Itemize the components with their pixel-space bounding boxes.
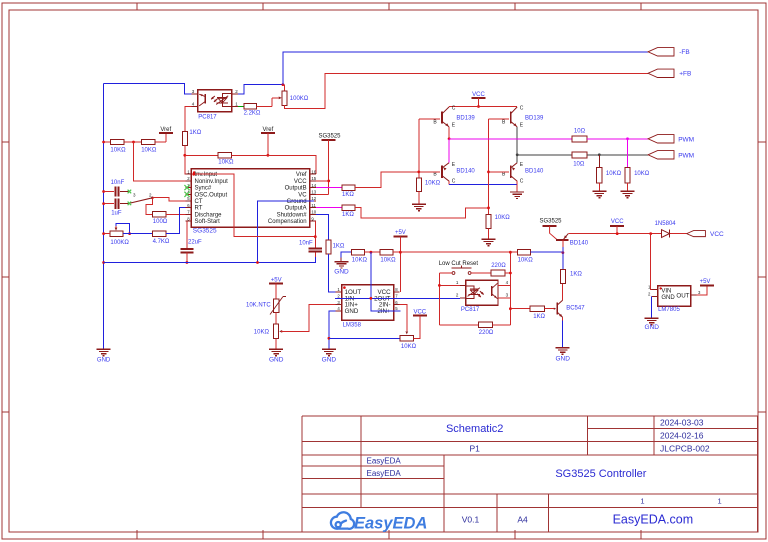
wire Soft-Start pin8 to 22uF — [185, 221, 187, 249]
logo EasyEDA — [331, 512, 354, 529]
svg-text:3: 3 — [133, 192, 136, 197]
svg-text:10KΩ: 10KΩ — [634, 171, 650, 177]
svg-text:Soft-Start: Soft-Start — [195, 219, 221, 225]
svg-text:1KΩ: 1KΩ — [533, 314, 545, 320]
svg-text:E: E — [452, 123, 456, 129]
wire bottom blue to 10K pot — [329, 337, 400, 339]
wire 22uF to ground bus — [186, 252, 188, 262]
ground LM358 — [322, 348, 336, 350]
svg-text:10Ω: 10Ω — [574, 128, 586, 134]
wire OutputA to right driver bases — [355, 208, 489, 218]
svg-text:C: C — [452, 105, 456, 111]
resistor 220R (upper) — [491, 270, 505, 276]
potentiometer 100K (feedback) — [282, 91, 287, 106]
svg-text:Vref: Vref — [160, 127, 171, 133]
wire PC817#2 right pins to bus — [498, 284, 510, 286]
svg-text:10KΩ: 10KΩ — [218, 160, 234, 166]
svg-text:C: C — [520, 105, 524, 111]
wire BC547 emitter to ground — [562, 317, 564, 320]
svg-text:PC817: PC817 — [461, 307, 480, 313]
svg-text:Ground: Ground — [287, 199, 307, 205]
svg-text:10: 10 — [311, 210, 316, 215]
svg-text:2024-03-03: 2024-03-03 — [660, 418, 704, 428]
potentiometer 100K (RT) — [110, 231, 123, 236]
resistor 10R (lower) — [572, 152, 587, 158]
resistor 10R (upper) — [572, 136, 587, 142]
svg-text:E: E — [520, 123, 524, 129]
ground left rail — [103, 348, 105, 350]
svg-text:2024-02-16: 2024-02-16 — [660, 431, 704, 441]
transistor Q BD139 (left) — [441, 112, 443, 124]
capacitor 10nF (compensation) — [314, 237, 316, 249]
IC U3 LM7805 — [658, 286, 691, 307]
svg-text:OutputA: OutputA — [285, 206, 307, 212]
wire collectors blue link — [448, 181, 450, 184]
svg-text:2.2KΩ: 2.2KΩ — [244, 111, 261, 117]
svg-text:GND: GND — [555, 356, 570, 363]
svg-text:B: B — [502, 172, 506, 178]
svg-text:PC817: PC817 — [198, 114, 217, 120]
svg-text:EasyEDA: EasyEDA — [367, 457, 402, 466]
resistor 220R (lower) — [439, 324, 478, 326]
svg-text:13: 13 — [311, 190, 316, 195]
svg-text:GND: GND — [345, 308, 359, 315]
resistor 1K (OutputB) — [342, 185, 355, 190]
svg-text:P1: P1 — [469, 444, 480, 454]
ground LM7805 — [645, 317, 659, 319]
wire SG3525 flag to VCC pin15 and VC pin13 — [328, 140, 330, 194]
svg-text:JLCPCB-002: JLCPCB-002 — [660, 444, 710, 454]
svg-text:10KΩ: 10KΩ — [401, 344, 417, 350]
resistor 4.7K (RT) — [152, 231, 166, 236]
svg-text:1KΩ: 1KΩ — [342, 192, 354, 198]
svg-text:1uF: 1uF — [111, 211, 122, 217]
svg-text:3: 3 — [506, 293, 509, 298]
svg-text:1KΩ: 1KΩ — [189, 130, 201, 136]
wire switch left to vertical — [439, 272, 452, 274]
svg-text:PWM: PWM — [678, 136, 694, 143]
flag VCC output — [687, 231, 706, 237]
wire switch right to 220R — [471, 272, 491, 274]
wire 2.2K to pot wiper — [257, 105, 273, 107]
thermistor 10K NTC — [274, 299, 279, 313]
wire left emitters — [448, 127, 450, 139]
wire 1K down to LM358 1OUT — [328, 254, 335, 292]
svg-text:3: 3 — [192, 89, 195, 94]
svg-text:3: 3 — [698, 290, 701, 295]
wire pot right to 4.7K — [123, 233, 152, 235]
node divider junction — [132, 141, 135, 144]
wire Compensation pin9 drop — [314, 221, 316, 237]
svg-text:4.7KΩ: 4.7KΩ — [153, 239, 170, 245]
svg-text:OutputB: OutputB — [285, 186, 307, 192]
svg-text:BD139: BD139 — [525, 116, 544, 122]
power flag +5V (divider) — [393, 251, 400, 253]
wire LM7805 GND to ground — [651, 297, 653, 319]
resistor 2.2K — [244, 104, 257, 109]
resistor 10K (pulldown right) — [627, 139, 629, 168]
wire pot bottom to +FB — [284, 73, 648, 108]
wire divider to Noninv.Input pin2 — [134, 142, 186, 181]
svg-text:100KΩ: 100KΩ — [110, 240, 129, 246]
svg-text:Compensation: Compensation — [268, 219, 307, 225]
wire switch to CT pin5 — [152, 197, 185, 201]
svg-text:15: 15 — [311, 176, 316, 181]
optocoupler PC817 #1 — [198, 90, 232, 112]
wire 220R to right bus — [505, 272, 510, 274]
wire 1K to Inv.Input pin1 — [185, 145, 192, 174]
wire PWM lower dark — [517, 154, 572, 156]
ground right base 10K — [488, 229, 490, 240]
svg-text:C: C — [452, 179, 456, 185]
svg-text:SG3525 Controller: SG3525 Controller — [555, 468, 646, 480]
power flag +5V (LM7805) — [700, 285, 714, 287]
resistor 100R — [152, 212, 166, 217]
svg-text:10KΩ: 10KΩ — [518, 257, 534, 263]
resistor 10K (divider left) — [111, 139, 125, 144]
wire pot top to blue node — [283, 85, 285, 91]
svg-text:2: 2 — [456, 293, 459, 298]
wire 10K to BD140 collector node — [530, 251, 563, 253]
wire VCC rail to diode — [568, 233, 686, 235]
wire OutputB magenta — [316, 187, 342, 189]
resistor 1K (collector load) — [560, 269, 565, 283]
svg-text:Noninv.Input: Noninv.Input — [195, 179, 229, 185]
svg-text:PWM: PWM — [678, 152, 694, 159]
svg-text:E: E — [452, 162, 456, 168]
svg-text:9: 9 — [311, 216, 314, 221]
IC U1 SG3525 — [191, 169, 309, 227]
svg-text:+FB: +FB — [679, 71, 691, 78]
wire right base vertical — [488, 119, 490, 215]
svg-text:GND: GND — [644, 324, 659, 331]
transistor Q BD140 (right) — [510, 166, 512, 178]
wire blue top-left to PC817 pin3 — [104, 84, 192, 95]
svg-text:B: B — [502, 120, 506, 126]
svg-text:V0.1: V0.1 — [462, 514, 480, 524]
wire PWM upper magenta — [449, 138, 572, 140]
wire divider mid to 2IN+ — [371, 252, 400, 311]
svg-text:1KΩ: 1KΩ — [570, 271, 582, 277]
wire 4.7K to RT pin6 — [166, 208, 185, 234]
wire ground bus — [104, 257, 316, 263]
svg-text:10KΩ: 10KΩ — [425, 180, 441, 186]
resistor 10K (pulldown left) — [598, 155, 600, 168]
wire left vertical of PC817#2 — [438, 273, 440, 325]
svg-text:VCC: VCC — [294, 179, 307, 185]
svg-text:4: 4 — [506, 280, 509, 285]
transistor Q BC547 — [544, 308, 554, 310]
svg-text:C: C — [520, 179, 524, 185]
resistor 10K (right base) — [486, 215, 491, 229]
switch Low Cut Reset — [452, 272, 455, 275]
wire pot bottom to ground — [275, 339, 277, 350]
svg-text:B: B — [433, 120, 437, 126]
wire pot right to VCC — [414, 315, 420, 338]
capacitor 10nF (CT) — [104, 191, 114, 193]
ground pulldown left — [598, 183, 600, 191]
flag -FB — [648, 48, 674, 56]
power flag Vref (right) — [261, 132, 275, 134]
wire OutputB to driver bases — [355, 172, 419, 188]
svg-text:10KΩ: 10KΩ — [254, 329, 270, 335]
wire Inv.Input feedback crossover — [194, 174, 316, 237]
node Vref line junction — [183, 154, 186, 157]
svg-text:BD140: BD140 — [456, 169, 475, 175]
svg-text:CT: CT — [195, 199, 203, 205]
svg-text:Vref: Vref — [263, 127, 274, 133]
svg-text:LM358: LM358 — [343, 323, 362, 329]
wire 10K left stub to ground — [341, 252, 352, 257]
svg-text:Sync#: Sync# — [195, 186, 212, 192]
wire NTC to pot — [275, 313, 277, 325]
svg-text:VC: VC — [298, 192, 307, 198]
svg-text:3: 3 — [337, 300, 340, 305]
svg-text:7: 7 — [395, 294, 398, 299]
potentiometer 10K (NTC) — [274, 324, 279, 339]
svg-text:1: 1 — [187, 169, 190, 174]
ground pulldown right — [627, 183, 629, 191]
svg-text:Discharge: Discharge — [195, 212, 223, 218]
transistor Q BD139 (right) — [510, 112, 512, 124]
svg-text:1N5804: 1N5804 — [655, 221, 677, 227]
svg-text:B: B — [433, 172, 437, 178]
wire OutputA magenta — [316, 207, 342, 209]
svg-text:7: 7 — [187, 210, 190, 215]
svg-text:10KΩ: 10KΩ — [606, 171, 622, 177]
svg-text:BC547: BC547 — [566, 306, 585, 312]
transistor Q BD140 (left) — [441, 166, 443, 178]
svg-text:GND: GND — [661, 295, 675, 301]
wire bus to 1K base resistor — [510, 308, 530, 310]
svg-text:Low Cut Reset: Low Cut Reset — [439, 261, 479, 267]
wire PC817 pin4 down to 1K — [185, 106, 192, 131]
svg-text:OSC.Output: OSC.Output — [195, 192, 228, 198]
svg-text:EasyEDA: EasyEDA — [354, 514, 427, 532]
svg-text:10K.NTC: 10K.NTC — [246, 303, 271, 309]
svg-text:2: 2 — [187, 176, 190, 181]
svg-text:4: 4 — [192, 101, 195, 106]
svg-text:14: 14 — [311, 183, 316, 188]
ground right BD140 collector — [516, 185, 518, 192]
resistor 10K (divider a) — [352, 250, 365, 255]
resistor 10K (divider b) — [380, 250, 393, 255]
svg-text:1: 1 — [718, 496, 722, 505]
svg-text:Inv.Input: Inv.Input — [195, 172, 218, 178]
wire -FB riser — [283, 52, 648, 85]
resistor 1K (OutputA) — [342, 205, 355, 210]
wire BC547 collector — [562, 283, 564, 300]
wire rail to pot left — [104, 233, 110, 235]
resistor 10K (left base) — [416, 178, 421, 192]
wire pot wiper loop — [116, 223, 130, 233]
wire OUT to +5V — [697, 286, 707, 296]
svg-text:8: 8 — [395, 287, 398, 292]
svg-text:VCC: VCC — [611, 219, 624, 225]
svg-text:5: 5 — [395, 306, 398, 311]
svg-text:EasyEDA: EasyEDA — [367, 469, 402, 478]
optocoupler PC817 #2 — [466, 280, 498, 305]
ground BC547 — [556, 347, 570, 349]
wire PC817 pin2 to -FB net — [238, 85, 283, 95]
svg-text:16: 16 — [311, 169, 316, 174]
power flag Vref (left) — [155, 141, 165, 143]
svg-text:1: 1 — [640, 496, 644, 505]
no-connect OSC.Output pin4 — [184, 192, 189, 197]
svg-text:1KΩ: 1KΩ — [333, 244, 345, 250]
svg-text:10KΩ: 10KΩ — [352, 258, 368, 264]
svg-text:6: 6 — [395, 300, 398, 305]
svg-text:8: 8 — [187, 216, 190, 221]
potentiometer 10K (offset) — [400, 336, 414, 342]
node pot top junction — [282, 83, 285, 86]
svg-text:Vref: Vref — [296, 172, 307, 178]
wire 1IN- 2OUT blue line — [335, 297, 460, 299]
svg-text:22uF: 22uF — [188, 240, 202, 246]
resistor 1K (shutdown) — [326, 240, 331, 254]
svg-text:LM7805: LM7805 — [658, 307, 680, 313]
svg-text:OUT: OUT — [676, 293, 689, 300]
node bottom blue junction — [328, 337, 331, 340]
resistor 10K (divider right) — [142, 139, 156, 144]
svg-text:-FB: -FB — [679, 49, 689, 56]
svg-text:GND: GND — [322, 357, 337, 364]
svg-text:100Ω: 100Ω — [153, 219, 168, 225]
IC U2 LM358 — [342, 285, 394, 321]
svg-text:+5V: +5V — [700, 279, 711, 285]
node divider tap dots on rail — [102, 141, 105, 144]
flag PWM lower — [648, 151, 674, 159]
wire to PC817#2 pin1 — [439, 284, 460, 286]
wire Ground pin12 drop — [258, 201, 315, 263]
ground divider — [335, 261, 349, 263]
node diode junction — [649, 232, 652, 235]
wire bridge top rail — [449, 106, 517, 108]
svg-text:10KΩ: 10KΩ — [110, 148, 126, 154]
svg-text:10KΩ: 10KΩ — [141, 148, 157, 154]
svg-text:SG3525: SG3525 — [540, 218, 563, 224]
svg-text:100KΩ: 100KΩ — [290, 96, 309, 102]
svg-text:10nF: 10nF — [111, 180, 125, 186]
wire divider row to PC817#2 bus — [400, 251, 510, 253]
svg-text:5: 5 — [187, 196, 190, 201]
node divider mid — [365, 251, 381, 253]
svg-text:1KΩ: 1KΩ — [342, 212, 354, 218]
svg-text:12: 12 — [311, 196, 316, 201]
wire right emitters (dark) — [516, 127, 518, 155]
wire node to 1K — [562, 253, 564, 270]
svg-text:1: 1 — [235, 101, 238, 106]
transistor Q BD140 (driver) — [550, 226, 557, 240]
wire left blue rail — [103, 84, 105, 350]
diode 1N5804 — [662, 230, 670, 238]
svg-text:220Ω: 220Ω — [479, 330, 494, 336]
svg-text:VIN: VIN — [661, 288, 671, 294]
svg-text:11: 11 — [311, 203, 316, 208]
wire diode node to LM7805 VIN — [651, 234, 652, 290]
wire pot wiper to LM358 1IN+ — [284, 305, 336, 332]
svg-text:10KΩ: 10KΩ — [495, 215, 511, 221]
wire 10K to Vref pin16 — [232, 155, 316, 174]
svg-text:10KΩ: 10KΩ — [380, 258, 396, 264]
svg-text:GND: GND — [97, 358, 111, 364]
svg-text:1: 1 — [337, 287, 340, 292]
svg-text:Schematic2: Schematic2 — [446, 423, 503, 435]
svg-text:GND: GND — [334, 268, 349, 275]
svg-text:SG3525: SG3525 — [193, 227, 217, 234]
svg-text:2: 2 — [648, 291, 651, 296]
svg-text:10nF: 10nF — [299, 241, 313, 247]
svg-text:A4: A4 — [517, 514, 528, 524]
title block grid — [302, 415, 758, 417]
wire 100R to Discharge pin7 — [166, 213, 185, 215]
svg-text:BD140: BD140 — [525, 169, 544, 175]
svg-text:10Ω: 10Ω — [573, 161, 585, 167]
wire GND pin4 to ground — [329, 311, 336, 349]
svg-text:2: 2 — [337, 294, 340, 299]
svg-text:6: 6 — [187, 203, 190, 208]
svg-text:2: 2 — [235, 89, 238, 94]
resistor 10K (Vref line) — [218, 153, 232, 158]
wire green PC817 pin1 to 2.2K — [238, 105, 244, 107]
svg-text:2: 2 — [149, 192, 152, 197]
svg-text:SG3525: SG3525 — [319, 134, 342, 140]
svg-text:220Ω: 220Ω — [491, 263, 506, 269]
switch SPDT cap select — [128, 190, 132, 194]
svg-text:BD139: BD139 — [456, 116, 475, 122]
svg-text:1: 1 — [456, 280, 459, 285]
wire switch to 100R — [146, 198, 153, 215]
wire BD140 collector down — [562, 240, 564, 247]
ground left base 10K — [418, 192, 420, 205]
svg-text:RT: RT — [195, 206, 203, 212]
ground NTC pot — [269, 348, 283, 350]
flag PWM upper — [648, 135, 674, 143]
wire to 10K Vref — [185, 154, 218, 156]
wire +5V stem to LM358 VCC — [399, 236, 401, 292]
flag +FB — [648, 69, 674, 77]
svg-text:VCC: VCC — [710, 231, 724, 238]
svg-text:4: 4 — [337, 306, 340, 311]
svg-text:E: E — [520, 162, 524, 168]
wire right vertical bus of PC817#2 — [509, 252, 511, 325]
resistor 10K (driver base) — [510, 251, 517, 253]
wire Shutdown pin10 to 1K — [316, 214, 329, 240]
no-connect Sync# pin3 — [184, 185, 189, 190]
svg-text:Shutdown#: Shutdown# — [277, 212, 308, 218]
resistor 1K (BC547 base) — [530, 306, 544, 312]
svg-text:GND: GND — [269, 357, 284, 364]
svg-text:BD140: BD140 — [570, 240, 589, 246]
resistor 1K (vertical, pin1 net) — [182, 132, 187, 146]
wire divider row — [104, 141, 111, 143]
svg-text:EasyEDA.com: EasyEDA.com — [613, 513, 694, 527]
wire left base vertical — [418, 119, 420, 178]
capacitor 22uF (soft start) — [180, 248, 193, 250]
capacitor 1uF (CT) — [104, 203, 114, 205]
wire 2IN- to pot wiper — [400, 305, 407, 331]
